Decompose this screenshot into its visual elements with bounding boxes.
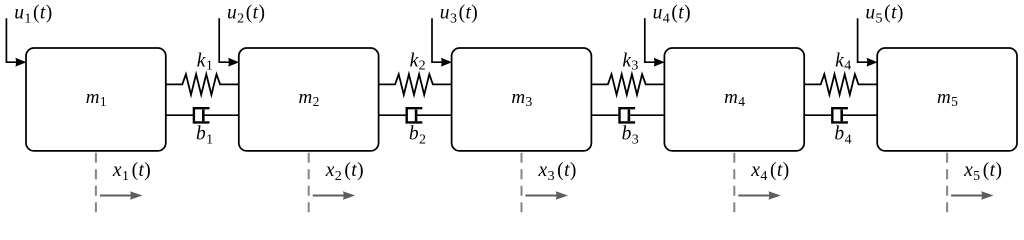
svg-text:u4(t): u4(t) (653, 3, 691, 27)
svg-text:u3(t): u3(t) (440, 3, 478, 27)
label x1(t) (112, 160, 151, 184)
input force arrow u4(t) (645, 18, 665, 66)
label m4 (724, 87, 745, 109)
label x3(t) (538, 160, 577, 184)
label u5(t) (865, 3, 903, 27)
displacement arrow x4(t) (738, 191, 781, 200)
label x4(t) (750, 160, 789, 184)
dashed reference line below m5 (946, 153, 948, 213)
label k4 (835, 50, 851, 73)
mass m3 box (452, 48, 592, 151)
label m3 (511, 87, 532, 109)
dashed reference line below m1 (95, 153, 97, 213)
mass m2 box (239, 48, 379, 151)
displacement arrow x3(t) (526, 191, 569, 200)
input force arrow u1(t) (6, 18, 26, 66)
label b3 (622, 123, 640, 147)
label x2(t) (325, 160, 364, 184)
label k2 (410, 50, 426, 73)
label b4 (834, 123, 852, 147)
spring k1 (166, 74, 239, 95)
dashed reference line below m4 (733, 153, 735, 213)
mass m4 box (664, 48, 804, 151)
label u3(t) (440, 3, 478, 27)
displacement arrow x2(t) (313, 191, 356, 200)
damper b1 (166, 108, 239, 122)
label k3 (622, 50, 638, 73)
label b1 (196, 123, 214, 147)
label u1(t) (14, 3, 52, 27)
svg-text:u1(t): u1(t) (14, 3, 52, 27)
input force arrow u5(t) (858, 18, 878, 66)
svg-text:x2(t): x2(t) (325, 160, 364, 184)
displacement arrow x1(t) (100, 191, 142, 200)
spring k4 (804, 74, 877, 95)
displacement arrow x5(t) (951, 191, 994, 200)
label m1 (86, 87, 107, 109)
svg-text:u5(t): u5(t) (865, 3, 903, 27)
svg-text:u2(t): u2(t) (227, 3, 265, 27)
label m2 (299, 87, 320, 109)
label m5 (937, 87, 958, 109)
label b2 (409, 123, 427, 147)
label u2(t) (227, 3, 265, 27)
dashed reference line below m3 (521, 153, 523, 213)
input force arrow u3(t) (432, 18, 452, 66)
damper b3 (591, 108, 664, 122)
input force arrow u2(t) (219, 18, 239, 66)
svg-text:x3(t): x3(t) (538, 160, 577, 184)
label k1 (197, 50, 213, 73)
svg-text:x5(t): x5(t) (963, 160, 1002, 184)
label x5(t) (963, 160, 1002, 184)
damper b2 (379, 108, 452, 122)
dashed reference line below m2 (308, 153, 310, 213)
spring k2 (379, 74, 452, 95)
spring k3 (591, 74, 664, 95)
svg-text:x4(t): x4(t) (750, 160, 789, 184)
svg-text:x1(t): x1(t) (112, 160, 151, 184)
damper b4 (804, 108, 877, 122)
label u4(t) (653, 3, 691, 27)
mass m5 box (877, 48, 1017, 151)
mass m1 box (26, 48, 166, 151)
